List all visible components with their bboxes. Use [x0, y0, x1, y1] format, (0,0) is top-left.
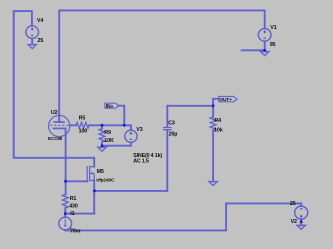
wire anode top rail to V1 [59, 10, 265, 122]
triode U2 [49, 115, 70, 136]
voltage source V3 [125, 130, 137, 142]
wire OUT row [167, 105, 213, 107]
wire grid row R5 leads to V3 top [70, 125, 131, 130]
wire cathode down to gate node and R1 [65, 128, 67, 194]
node V2 minus [300, 220, 303, 223]
node R5/R9 [101, 124, 104, 127]
ground below V4 [28, 45, 36, 49]
wire I1 bottom to V2 top [65, 203, 301, 230]
svg-text:20µ: 20µ [169, 132, 178, 138]
svg-text:U2: U2 [51, 110, 58, 116]
svg-text:R9: R9 [104, 130, 111, 136]
wire V1 bottom lead [264, 41, 266, 50]
ground below R9 [98, 147, 106, 151]
svg-text:V1: V1 [270, 25, 276, 31]
svg-text:70m: 70m [70, 228, 81, 234]
wire R4 bottom to ground [212, 130, 214, 181]
svg-text:25: 25 [290, 201, 296, 207]
node V1 minus [263, 49, 266, 52]
wire stub left of V1 [242, 49, 265, 51]
svg-text:IN+: IN+ [106, 104, 114, 110]
wire V3 bottom to R9 ground node [102, 142, 131, 145]
resistor R5 [76, 122, 89, 128]
svg-text:95: 95 [270, 42, 276, 48]
voltage source V1 [258, 29, 271, 42]
wire OUT+ flag stub [213, 99, 219, 106]
wire C3 bottom lead to source node [94, 130, 167, 191]
svg-text:V3: V3 [136, 127, 142, 133]
current source I1 [59, 217, 72, 230]
capacitor C3 [163, 128, 172, 130]
svg-text:430: 430 [69, 203, 78, 209]
svg-text:V2: V2 [291, 219, 297, 225]
ground below V1 [261, 52, 269, 56]
svg-text:C3: C3 [168, 120, 175, 126]
svg-text:AC 1.5: AC 1.5 [133, 159, 149, 165]
svg-text:10K: 10K [104, 138, 114, 144]
svg-text:100: 100 [79, 129, 88, 135]
wire MOSFET source down [93, 181, 95, 214]
node gate [64, 180, 67, 183]
node source/C3 [93, 189, 96, 192]
ground below R4 [209, 182, 217, 186]
svg-text:V4: V4 [37, 18, 43, 24]
voltage source V4 [26, 26, 39, 39]
resistor R1 [62, 194, 68, 208]
resistor R4 [210, 117, 216, 130]
port flag OUT+ [219, 96, 238, 103]
wire R4 top lead [212, 106, 214, 117]
node R1/I1 [64, 212, 67, 215]
port flag IN+ [105, 103, 119, 110]
nmos M5 [87, 166, 94, 182]
ground below V2 [297, 225, 305, 229]
node IN+/V3 [123, 124, 126, 127]
wire R1 bottom lead [64, 208, 66, 214]
wire V2 bottom lead [300, 219, 302, 225]
svg-text:OUT+: OUT+ [219, 97, 232, 103]
wire IN+ flag to grid node [119, 106, 125, 126]
svg-text:ECC88: ECC88 [48, 136, 63, 141]
wire R9 leads [101, 125, 103, 147]
svg-text:irfp240C: irfp240C [96, 178, 115, 184]
resistor R9 [99, 129, 105, 142]
svg-text:25: 25 [38, 38, 44, 44]
wire C3 top lead [166, 106, 168, 127]
svg-text:10k: 10k [214, 128, 223, 134]
svg-text:R1: R1 [70, 196, 77, 202]
svg-text:I1: I1 [70, 211, 74, 217]
svg-text:R4: R4 [214, 118, 221, 124]
node R9 gnd [101, 144, 104, 147]
wire V4 top branch + left rail + MOSFET drain [14, 11, 95, 167]
wire I1 top lead [64, 214, 66, 218]
voltage source V2 (flipped) [295, 206, 308, 219]
wire source row to R1 node [65, 213, 94, 215]
svg-text:R5: R5 [79, 116, 86, 122]
wire V4 bottom to ground [31, 38, 33, 44]
wire gate lead [66, 180, 88, 182]
svg-text:M5: M5 [97, 169, 104, 175]
node OUT [212, 104, 215, 107]
